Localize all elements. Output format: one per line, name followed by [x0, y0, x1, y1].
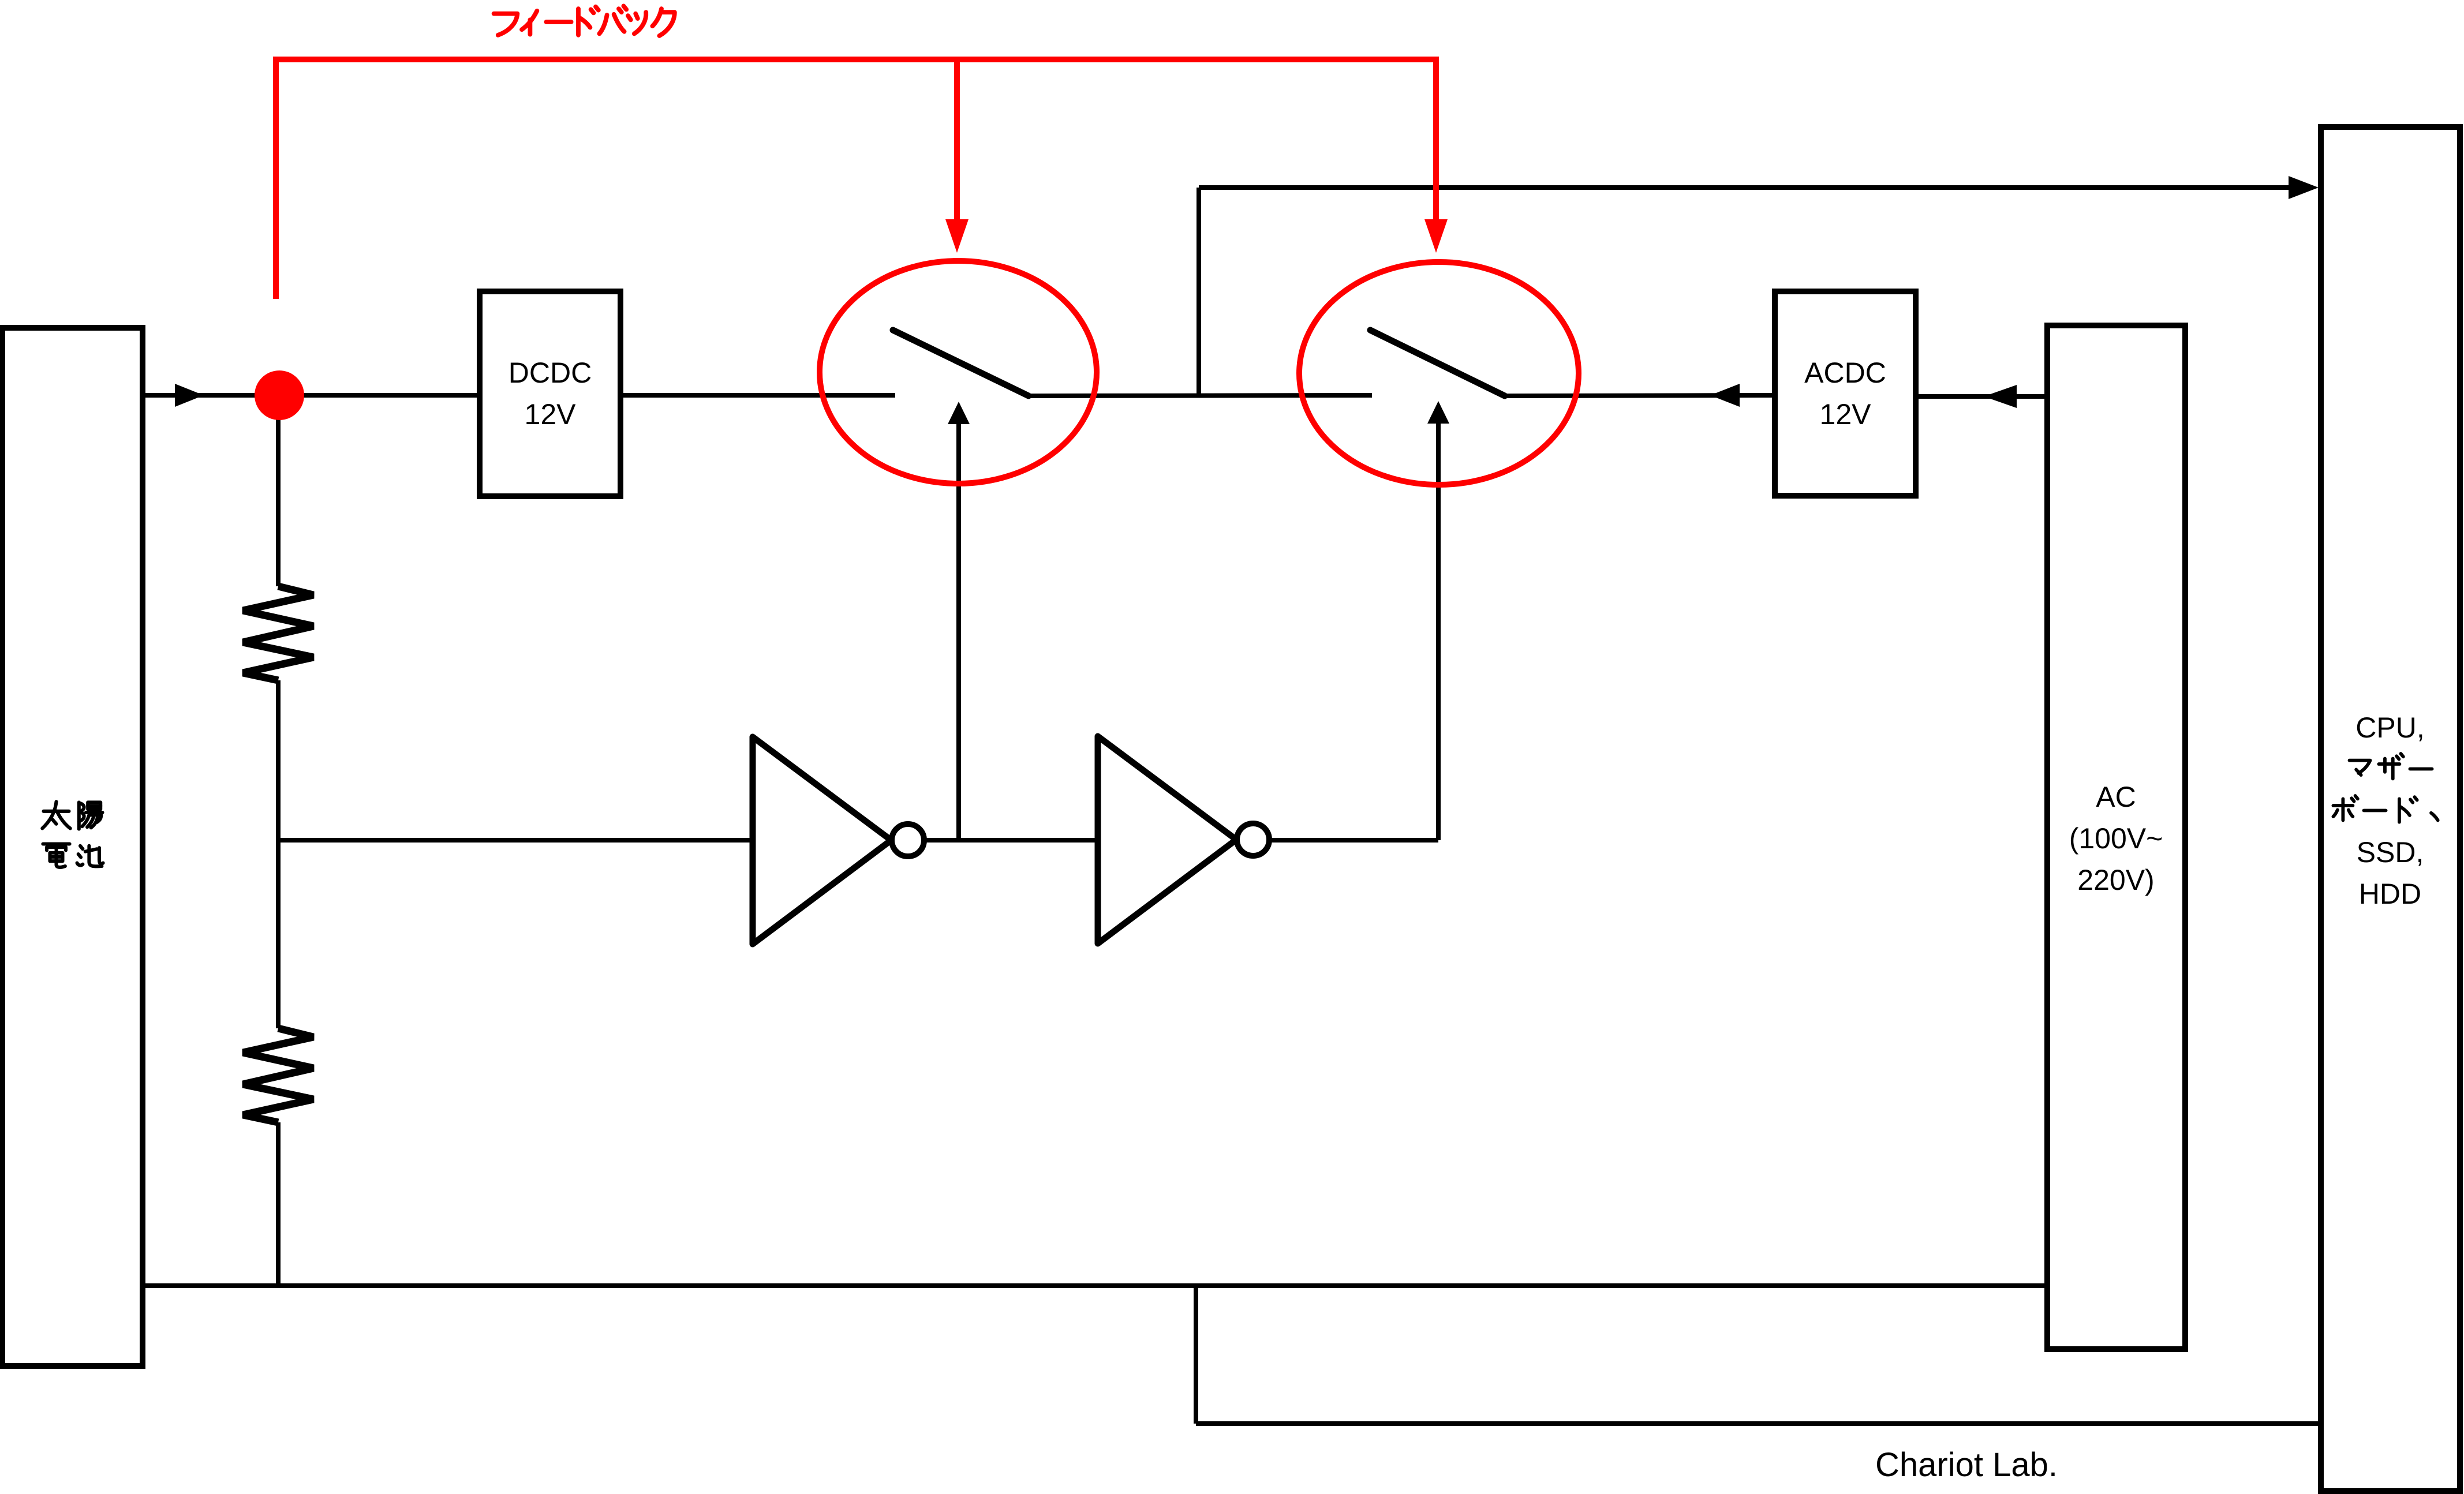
label マザー [2349, 754, 2432, 778]
AC supply box [2047, 325, 2185, 1349]
svg-text:AC: AC [2096, 781, 2136, 813]
svg-text:HDD: HDD [2359, 878, 2421, 910]
switch SW2 highlight ellipse (red) [1299, 262, 1579, 485]
svg-text:Chariot Lab.: Chariot Lab. [1875, 1446, 2058, 1484]
wire: U2 output to SW2 actuator [1269, 838, 1438, 843]
wire: bottom bus lower run to CPU box [1196, 1421, 2321, 1426]
arrowhead: solar output (points right) [175, 384, 204, 407]
arrowhead: AC into ACDC (points left) [1984, 385, 2017, 408]
label 太陽 (solar) [42, 802, 102, 829]
wire: U1 output to U2 input [924, 838, 1098, 843]
wire: resistor chain vertical from node to R1 [276, 395, 281, 586]
wire: DCDC to switch SW1 left contact [620, 393, 895, 398]
wire: red feedback horizontal run [273, 57, 1439, 62]
wire: SW1 actuator vertical [956, 422, 961, 840]
wire: top wire junction vertical (bus to top wire) [1197, 188, 1201, 395]
wire: bottom bus from solar battery to AC box [143, 1283, 2047, 1288]
label フィードバック (feedback, red) [494, 6, 675, 36]
wire: top wire to CPU box [1199, 185, 2290, 190]
inverter U2 triangle [1098, 736, 1236, 943]
arrowhead: SW1 actuator (points up) [948, 402, 970, 424]
wire: AC box to ACDC [1916, 394, 2047, 399]
svg-text:ACDC: ACDC [1804, 357, 1886, 389]
svg-text:12V: 12V [1820, 398, 1872, 430]
solar battery box (太陽電池) [2, 328, 143, 1366]
arrowhead: ACDC output toward SW2 (points left) [1710, 384, 1740, 407]
svg-text:DCDC: DCDC [508, 357, 592, 389]
wire: SW2 actuator vertical [1436, 421, 1441, 840]
svg-text:(100V~: (100V~ [2069, 822, 2163, 855]
inverter U1 bubble [892, 824, 924, 856]
wire: bottom bus step-down connector [1194, 1286, 1198, 1424]
svg-text:12V: 12V [525, 398, 577, 430]
resistor R1 (upper divider) [243, 586, 313, 680]
switch SW1 blade (open) [893, 330, 1029, 396]
arrowhead: top wire into CPU box (points right) [2289, 176, 2319, 199]
wire: between R1 and R2 (tap at mid wire) [276, 680, 281, 1028]
svg-text:CPU,: CPU, [2355, 712, 2424, 744]
label 電池 (battery) [43, 844, 103, 867]
wire: red feedback vertical from tap [273, 59, 279, 299]
label ボード、 [2333, 796, 2437, 822]
wire: divider tap to inverter U1 input [278, 838, 753, 843]
node: red feedback tap dot [255, 370, 304, 420]
inverter U1 triangle [753, 737, 891, 944]
resistor R2 (lower divider) [243, 1028, 313, 1122]
svg-text:SSD,: SSD, [2357, 836, 2424, 868]
switch SW1 highlight ellipse (red) [820, 261, 1097, 484]
wire: R2 bottom to bottom bus [276, 1122, 281, 1286]
DCDC converter box [480, 291, 620, 496]
wire: red feedback drop to SW2 [1433, 59, 1439, 225]
wire: SW1 right contact to SW2 left contact (through top-wire junction) [1029, 395, 1372, 396]
wire: red feedback drop to SW1 [954, 59, 960, 225]
switch SW2 blade (open) [1370, 330, 1505, 396]
CPU / motherboard / SSD / HDD box [2321, 127, 2460, 1491]
wire: SW2 right contact to ACDC [1505, 395, 1775, 396]
inverter U2 bubble [1237, 823, 1269, 856]
svg-text:220V): 220V) [2077, 864, 2154, 896]
ACDC converter box [1775, 291, 1916, 496]
arrowhead: red feedback into SW1 (points down) [945, 219, 969, 253]
arrowhead: SW2 actuator (points up) [1427, 401, 1449, 424]
wire: main bus solar to DCDC [143, 393, 480, 398]
arrowhead: red feedback into SW2 (points down) [1424, 219, 1448, 253]
